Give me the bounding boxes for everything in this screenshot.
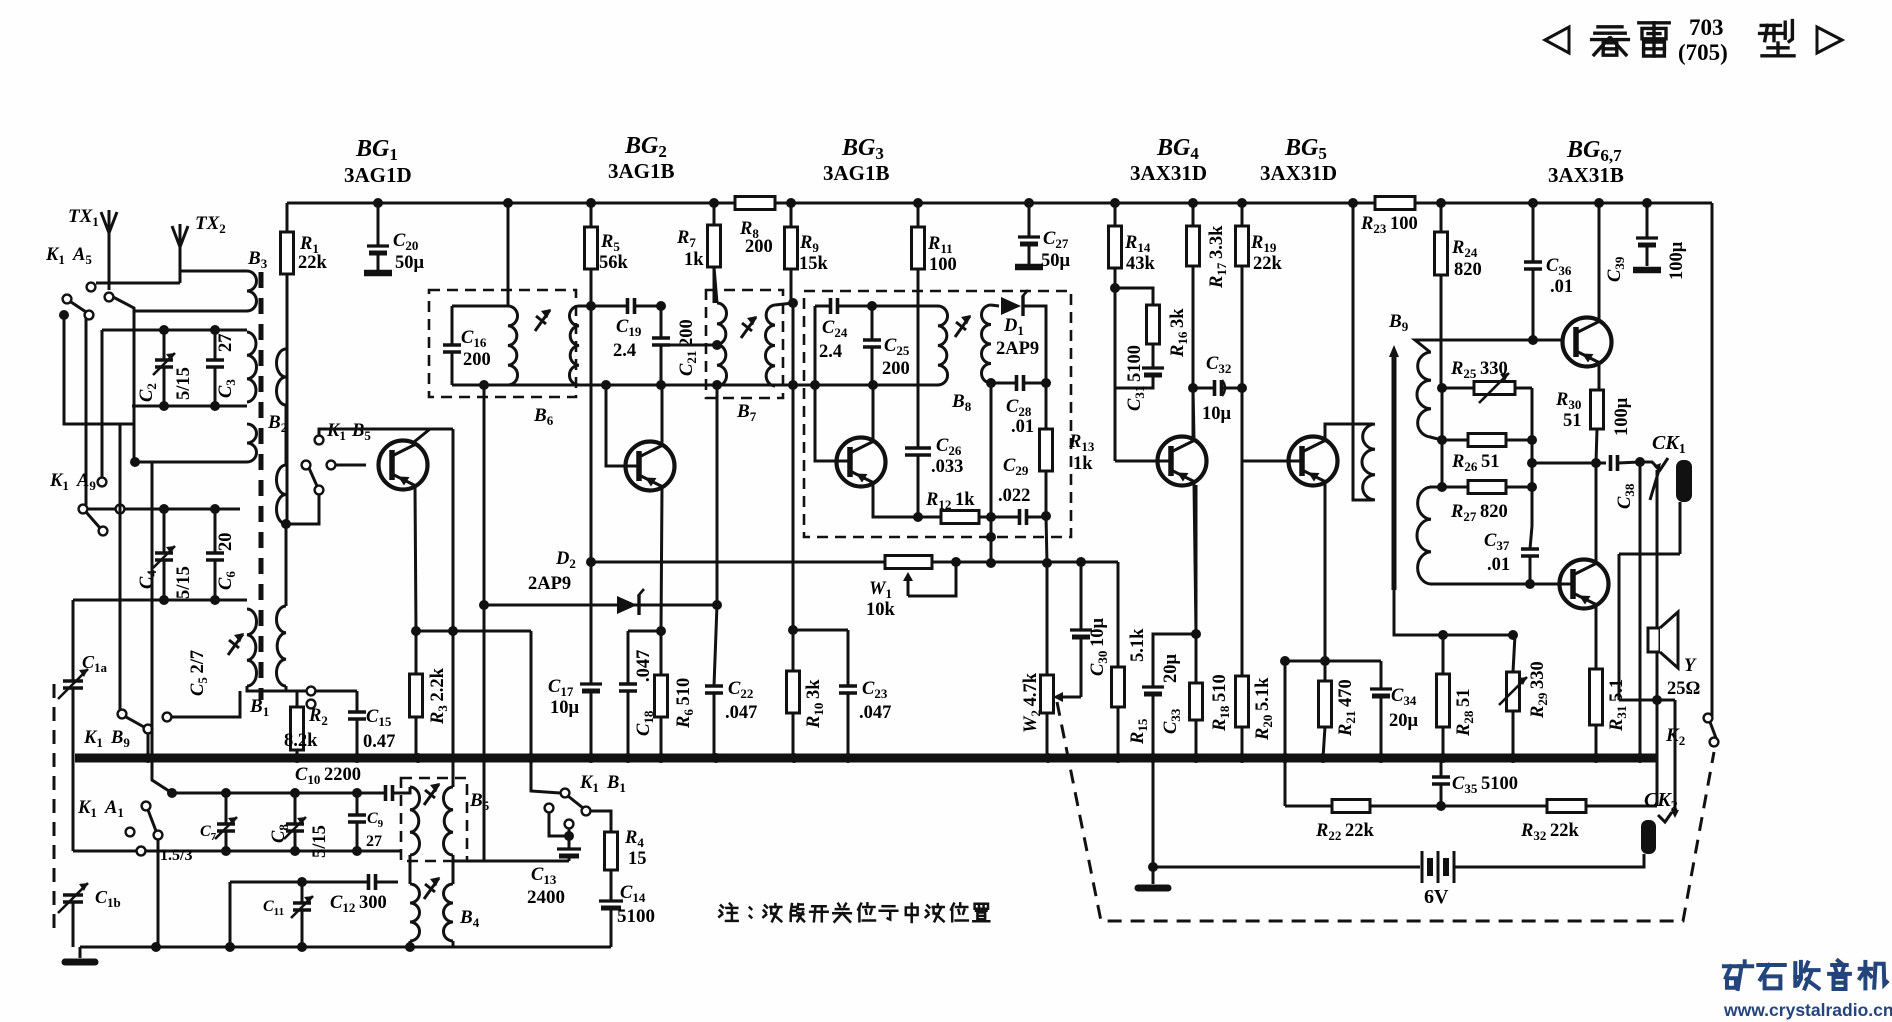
jack CK2	[1641, 820, 1656, 854]
wire D2 line	[484, 604, 717, 607]
wiper W1	[907, 576, 910, 596]
svg-text:200: 200	[882, 359, 910, 379]
wire BG7 collector	[1595, 463, 1598, 562]
wire K1A9 feed	[101, 330, 104, 478]
svg-text:C21 200: C21 200	[677, 319, 699, 376]
wire C18 top	[628, 630, 661, 633]
svg-text:20μ: 20μ	[1389, 711, 1419, 731]
svg-text:Y: Y	[1684, 656, 1697, 676]
junction emitter node	[411, 626, 421, 636]
junction ground bus	[656, 753, 666, 763]
resistor R16	[1147, 305, 1160, 344]
wire BG4 collector	[1193, 388, 1194, 439]
junction ground bus	[1438, 753, 1448, 763]
wire C2 bottom	[132, 405, 247, 408]
coil B2 upper	[277, 349, 287, 405]
box B6 dashed	[429, 290, 576, 397]
contact circles	[307, 687, 316, 696]
wire C32 row	[1193, 387, 1242, 390]
capacitor C31	[1152, 344, 1155, 368]
switch K1A9	[98, 478, 107, 487]
coil B8 secondary	[982, 305, 992, 383]
junction ground bus	[352, 753, 362, 763]
svg-text:27: 27	[366, 833, 382, 850]
wire BG3 base drop	[815, 385, 848, 461]
transistor BG4	[1158, 437, 1207, 486]
wire B2 bottom to B1	[285, 524, 288, 606]
svg-text:3AG1D: 3AG1D	[344, 163, 412, 187]
wire BG2 base drop	[606, 385, 637, 466]
svg-text:R3 2.2k: R3 2.2k	[428, 667, 450, 725]
wire BG2 emitter	[661, 487, 662, 631]
wire K1B9 to bus	[147, 733, 150, 758]
resistor R32	[1547, 800, 1586, 813]
resistor R31	[1590, 669, 1603, 725]
wire bottom return	[80, 946, 611, 949]
switch K1B1	[561, 789, 570, 798]
coil B9 primary	[1362, 424, 1375, 500]
switch K1B9	[118, 710, 127, 719]
thermistor R29	[1513, 635, 1515, 672]
wire right edge vertical	[1711, 203, 1714, 716]
wire C34 row	[1285, 660, 1381, 663]
wire W1 right	[932, 561, 1118, 564]
capacitor C13	[557, 847, 581, 850]
svg-text:.033: .033	[931, 457, 963, 477]
ground left	[79, 947, 82, 958]
wire sec top lead	[1430, 437, 1442, 440]
title chunlei	[1598, 25, 1622, 28]
junction ground bus	[526, 753, 536, 763]
coil B7 secondary	[765, 305, 775, 386]
junction top bus	[709, 198, 719, 208]
svg-text:10μ: 10μ	[1202, 404, 1232, 424]
svg-text:2.4: 2.4	[819, 342, 842, 362]
wire switch to coil tap	[113, 297, 134, 462]
junction ground bus	[413, 753, 423, 763]
capacitor C4 trimmer	[163, 509, 166, 553]
variable capacitor C1a	[63, 681, 83, 688]
junction ground bus	[1113, 753, 1123, 763]
coil B4 right	[444, 884, 454, 941]
svg-text:820: 820	[1454, 260, 1482, 280]
svg-text:22k: 22k	[1253, 254, 1283, 274]
slug arrow B1	[228, 634, 243, 655]
dashed gang line C1	[53, 684, 56, 934]
wire B6 sec top	[579, 305, 591, 308]
svg-text:R32 22k: R32 22k	[1520, 821, 1580, 843]
battery 6V	[1421, 851, 1424, 883]
capacitor C27	[1028, 203, 1031, 237]
wire AGC column	[590, 269, 593, 562]
junction top bus	[503, 198, 513, 208]
capacitor C38	[1611, 455, 1618, 471]
svg-text:.047: .047	[859, 703, 891, 723]
coil B8 primary	[938, 306, 948, 385]
wire C19 right	[656, 301, 666, 311]
capacitor C36	[1532, 203, 1535, 262]
capacitor C19	[628, 298, 635, 314]
coil B1 right	[276, 606, 286, 686]
capacitor C17	[590, 562, 593, 684]
svg-text:703: 703	[1689, 15, 1724, 40]
svg-text:(705): (705)	[1678, 40, 1728, 65]
capacitor C11 trimmer	[301, 882, 304, 903]
svg-text:1k: 1k	[1073, 454, 1093, 474]
svg-text:6V: 6V	[1424, 886, 1449, 908]
junction top bus	[1528, 198, 1538, 208]
svg-text:43k: 43k	[1126, 254, 1156, 274]
coil B1 left	[247, 609, 257, 686]
svg-text:.01: .01	[1487, 555, 1510, 575]
capacitor C35	[1440, 758, 1443, 777]
transformer B9 core	[1392, 352, 1397, 590]
svg-text:5/15: 5/15	[310, 825, 330, 858]
junction ground bus	[1591, 753, 1601, 763]
resistor R28	[1442, 635, 1445, 674]
coil B4 left	[410, 884, 420, 941]
capacitor C12	[369, 874, 376, 890]
capacitor C10	[386, 785, 393, 801]
title triangles	[1545, 27, 1569, 53]
svg-text:C31 5100: C31 5100	[1125, 345, 1147, 411]
wire BG4 base	[1115, 460, 1171, 463]
wire C38 right	[1618, 462, 1640, 463]
resistor R5	[590, 203, 593, 227]
junction top bus	[1436, 198, 1446, 208]
junction top bus	[1348, 198, 1358, 208]
svg-text:3AX31D: 3AX31D	[1130, 161, 1207, 185]
box B7 dashed	[706, 290, 783, 398]
junction ground bus	[1280, 753, 1290, 763]
svg-text:C30 10μ: C30 10μ	[1088, 617, 1110, 676]
junction ground bus	[292, 753, 302, 763]
svg-text:R27 820: R27 820	[1450, 502, 1508, 524]
resistor R12	[941, 511, 979, 524]
wire C1b bottom	[72, 902, 75, 947]
svg-text:.01: .01	[1550, 277, 1573, 297]
wire BG5 emitter	[1324, 484, 1327, 661]
svg-text:2AP9: 2AP9	[528, 574, 571, 594]
capacitor C28	[1017, 375, 1024, 391]
wire BG4 emitter	[1194, 484, 1196, 634]
wire C19 row	[591, 305, 661, 308]
resistor R6	[660, 631, 663, 675]
resistor R7	[713, 203, 716, 225]
svg-text:R25 330: R25 330	[1450, 359, 1508, 381]
capacitor C9	[356, 793, 359, 815]
svg-text:15k: 15k	[799, 254, 829, 274]
wire K1B9 right	[171, 691, 240, 717]
coil B5 left	[401, 787, 410, 793]
wire B7 tap	[661, 344, 717, 347]
wire sec bot lead	[1430, 486, 1442, 489]
antenna TX2	[172, 226, 180, 247]
capacitor C29	[1020, 509, 1027, 525]
resistor R17	[1192, 203, 1195, 226]
wire BG1 emitter	[415, 486, 416, 631]
svg-text:C10 2200: C10 2200	[295, 765, 361, 787]
wire emitter node	[416, 630, 531, 633]
transistor BG7	[1560, 560, 1609, 609]
svg-text:.01: .01	[1011, 417, 1034, 437]
junction ground bus	[1148, 753, 1158, 763]
resistor R1	[286, 203, 289, 232]
capacitor C37	[1530, 526, 1532, 549]
diode D1 2AP9	[1001, 297, 1021, 315]
wire C29 row	[979, 516, 1046, 519]
wire battery right	[1454, 854, 1644, 867]
junction top bus	[1110, 198, 1120, 208]
svg-text:3AG1B: 3AG1B	[608, 159, 675, 183]
speaker Y	[1648, 628, 1660, 652]
coil B9 sec top	[1417, 352, 1431, 437]
wire BG6 emitter	[1598, 364, 1601, 390]
junction ground bus	[1318, 753, 1328, 763]
junction ground bus	[1376, 753, 1386, 763]
resistor R20	[1241, 461, 1244, 676]
capacitor C7 trimmer	[225, 793, 228, 824]
wire TX2 to switch	[96, 282, 180, 285]
wire C2 top	[102, 329, 247, 332]
capacitor C33	[1153, 634, 1196, 687]
switch K1A5	[87, 283, 96, 292]
transistor BG2	[626, 442, 675, 491]
wire IF bottom rail	[452, 384, 938, 387]
wire band feed	[152, 462, 172, 793]
resistor R10	[787, 671, 800, 713]
svg-text:3AG1B: 3AG1B	[823, 161, 890, 185]
svg-text:20μ: 20μ	[1161, 654, 1181, 684]
capacitor C39	[1646, 203, 1649, 238]
wire AGC to W1	[591, 561, 885, 564]
coil B5 right	[443, 787, 453, 855]
arrow CK1	[1650, 470, 1659, 500]
junction ground bus	[1635, 753, 1645, 763]
wire BG1 collector	[414, 429, 430, 442]
junction ground bus	[1237, 753, 1247, 763]
wire C23 top	[793, 629, 848, 632]
slug arrow B5	[424, 784, 439, 805]
wire B5 right bottom	[453, 855, 565, 861]
capacitor C3	[214, 330, 217, 360]
resistor R23	[1375, 197, 1415, 210]
junction top bus	[373, 198, 383, 208]
svg-text:.047: .047	[634, 650, 654, 682]
svg-text:50μ: 50μ	[395, 253, 425, 273]
switch K1B5	[315, 436, 324, 445]
svg-text:1k: 1k	[684, 250, 704, 270]
resistor R3	[415, 631, 418, 674]
wire node to feedback	[1656, 700, 1659, 806]
antenna TX1	[101, 212, 109, 233]
svg-text:C5 2/7: C5 2/7	[188, 650, 210, 696]
svg-text:C35 5100: C35 5100	[1452, 774, 1518, 796]
wire B8 sec down	[990, 383, 993, 563]
svg-text:2.4: 2.4	[613, 341, 636, 361]
wire BG5 base	[1242, 388, 1302, 461]
svg-text:22k: 22k	[298, 253, 328, 273]
wire B7 primary down	[716, 386, 719, 605]
junction ground bus	[711, 753, 721, 763]
capacitor C21	[660, 306, 663, 338]
switch K1A9 row contacts	[79, 505, 88, 514]
capacitor C18	[627, 631, 630, 684]
resistor R14	[1114, 203, 1117, 226]
junction ground bus	[1043, 753, 1053, 763]
junction ground bus	[843, 753, 853, 763]
wire W1 wiper	[908, 562, 956, 596]
coil B7 primary	[717, 303, 727, 386]
wire band row3	[230, 881, 398, 884]
svg-text:200: 200	[463, 350, 491, 370]
diode D2 2AP9	[617, 596, 637, 614]
wire to K1B1	[531, 631, 560, 793]
coil B9 sec bottom	[1417, 487, 1431, 584]
resistor R19	[1241, 203, 1244, 226]
ground center	[1152, 758, 1155, 867]
capacitor C24	[831, 298, 838, 314]
wire K1B1 to R4	[590, 811, 611, 832]
svg-text:3AX31B: 3AX31B	[1548, 163, 1624, 187]
wire R9 R10 column	[792, 303, 795, 671]
wire output mix column	[1531, 388, 1534, 526]
wire supply to B9	[1353, 203, 1373, 500]
junction top bus	[1024, 198, 1034, 208]
junction top bus	[1188, 198, 1198, 208]
svg-text:R6 510: R6 510	[674, 678, 696, 729]
core B3 B2 dashed	[259, 272, 264, 700]
svg-text:R21 470: R21 470	[1336, 679, 1358, 737]
wire B1 bottom	[247, 686, 357, 691]
wire BG6 base line	[1415, 340, 1563, 352]
svg-text:25Ω: 25Ω	[1667, 679, 1700, 699]
potentiometer W1	[885, 556, 932, 569]
wire speaker node	[1619, 699, 1675, 702]
wire feedback line	[1284, 661, 1287, 806]
wire BG3 emitter	[873, 484, 941, 517]
svg-text:2AP9: 2AP9	[996, 339, 1039, 359]
coil B3 lower section	[247, 424, 257, 462]
wire bus to B6	[507, 203, 510, 306]
wire C13 stem	[568, 828, 571, 849]
wire R1 to B2 tap	[286, 412, 289, 524]
resistor R8	[735, 197, 775, 210]
wire R16 branch	[1115, 288, 1153, 305]
wire B3 tap	[134, 310, 247, 313]
resistor R9	[790, 203, 793, 227]
wire B2 link	[285, 405, 288, 465]
wire C1a bottom	[72, 688, 75, 851]
junction ground bus	[1508, 753, 1518, 763]
wire B6 tank top	[452, 305, 508, 308]
capacitor C8 trimmer	[294, 793, 297, 824]
svg-text:5/15: 5/15	[174, 566, 194, 599]
wire switch node	[59, 310, 69, 320]
svg-text:20: 20	[216, 533, 236, 552]
junction ground bus	[789, 753, 799, 763]
svg-text:R17 3.3k: R17 3.3k	[1207, 225, 1229, 289]
resistor R26	[1442, 439, 1468, 442]
capacitor C22	[714, 605, 717, 686]
wire speaker column	[1656, 470, 1659, 700]
box B8 dashed	[804, 291, 1071, 537]
svg-text:3AX31D: 3AX31D	[1260, 161, 1337, 185]
wire K1B1 alt contact	[549, 812, 569, 836]
svg-text:27: 27	[216, 334, 236, 353]
resistor R22	[1332, 800, 1370, 813]
svg-text:R18 510: R18 510	[1210, 674, 1232, 732]
wire BG6 collector	[1598, 203, 1601, 320]
wire BG7 emitter	[1595, 606, 1598, 669]
coil B2 lower	[277, 465, 287, 524]
potentiometer R25	[1442, 387, 1474, 390]
wire to oscillator B5	[452, 429, 455, 787]
svg-text:.022: .022	[998, 486, 1030, 506]
junction top bus	[913, 198, 923, 208]
svg-text:R23 100: R23 100	[1360, 214, 1418, 236]
wire D1 top	[991, 305, 999, 306]
wire BG2 collector	[661, 385, 664, 444]
resistor R27	[1442, 486, 1468, 489]
resistor R18	[1195, 485, 1198, 683]
jack CK1	[1640, 458, 1668, 470]
transistor BG6	[1563, 318, 1612, 367]
wire C4 row top	[83, 508, 240, 511]
wire band row1	[172, 792, 401, 795]
svg-text:.047: .047	[725, 703, 757, 723]
variable capacitor C1b	[63, 895, 83, 902]
wire BG3 collector	[872, 385, 875, 440]
wire output line	[1532, 462, 1606, 465]
capacitor C15	[356, 691, 359, 712]
svg-text:W2 4.7k: W2 4.7k	[1021, 672, 1043, 733]
slug arrow B7	[741, 317, 756, 338]
wire K1B5 to BG1 base	[335, 464, 366, 467]
wire R14 node	[1110, 283, 1120, 293]
junction top bus	[1594, 198, 1604, 208]
wire earphone branch	[1619, 553, 1680, 556]
svg-text:200: 200	[745, 237, 773, 257]
svg-text:50μ: 50μ	[1041, 251, 1071, 271]
svg-text:10k: 10k	[866, 600, 896, 620]
wire B8 top rail	[815, 305, 938, 308]
svg-text:R29 330: R29 330	[1528, 661, 1550, 719]
slug arrow B8	[955, 316, 970, 337]
wire C38 down	[1639, 462, 1642, 758]
svg-text:10μ: 10μ	[550, 698, 580, 718]
junction top bus	[586, 198, 596, 208]
coil B6 secondary	[569, 306, 579, 385]
svg-text:R20 5.1k: R20 5.1k	[1253, 677, 1275, 741]
switch K1A1	[142, 802, 151, 811]
svg-text:2400: 2400	[527, 887, 565, 908]
capacitor C6	[214, 509, 217, 553]
wire feedback right	[1586, 805, 1657, 808]
capacitor C23	[847, 630, 850, 686]
junction ground bus	[586, 753, 596, 763]
wire K1A1 to ground row	[157, 839, 160, 947]
transistor BG3	[837, 438, 886, 487]
resistor R21	[1324, 661, 1327, 681]
wire band row2	[73, 850, 401, 853]
coil B3 mid section	[247, 332, 257, 402]
capacitor C26	[917, 269, 920, 448]
transistor BG5	[1289, 437, 1338, 486]
wire K1B5 bottom	[286, 494, 319, 524]
wire W2 wiper	[1057, 696, 1081, 699]
switch K2	[1704, 714, 1713, 723]
